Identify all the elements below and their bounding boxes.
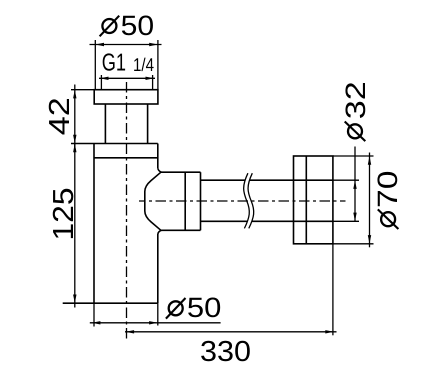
- svg-text:125: 125: [48, 188, 80, 241]
- nut bottom edge: [161, 229, 201, 231]
- dim G1 1/4: right extension line: [152, 75, 154, 90]
- nut face line: [184, 172, 186, 230]
- dim Ø50 top: right arrow: [149, 43, 158, 46]
- neck (G1 1/4 threaded inlet): [104, 104, 106, 144]
- body top edge with extension to dim line: [71, 143, 158, 145]
- dim G1 1/4: dimension line: [99, 77, 155, 79]
- dim Ø32: bottom arrow: [353, 213, 356, 222]
- dim 330: right arrow: [325, 330, 334, 333]
- wall flange outer rect: [294, 156, 333, 244]
- nut top edge: [161, 171, 201, 173]
- dim Ø50 bottom: left arrow: [92, 321, 101, 324]
- dim Ø50 top: left extension line: [94, 40, 96, 90]
- dim Ø32: label group (diameter symbol + 32) rotated: [340, 81, 371, 141]
- dim G1 1/4: right arrow: [146, 77, 155, 80]
- body bottom edge with extension to dim line: [63, 302, 158, 304]
- dim 125: dimension line: [74, 144, 76, 308]
- svg-text:50: 50: [121, 10, 155, 41]
- horizontal centerline of outlet pipe: [139, 200, 346, 202]
- svg-text:42: 42: [44, 97, 76, 135]
- body right edge lower: [157, 234, 159, 303]
- dim 42: bottom arrow: [73, 135, 76, 144]
- svg-text:1/4: 1/4: [133, 54, 154, 75]
- dim 330: left arrow: [125, 330, 134, 333]
- dim Ø70: bottom arrow: [368, 235, 371, 244]
- dim 125: top arrow: [73, 144, 76, 153]
- dim Ø50 bottom: diameter symbol: [166, 298, 186, 319]
- ball joint dome profile (chamfer-flat-chamfer): [145, 172, 161, 230]
- dim Ø50 top: right extension line: [157, 40, 159, 90]
- dim Ø32: dimension line: [354, 147, 356, 222]
- pipe break gap (white): [244, 173, 254, 228]
- dim Ø50 top: left arrow: [95, 43, 104, 46]
- body seam line: [94, 157, 158, 159]
- nut right edge: [200, 172, 202, 230]
- svg-text:G1: G1: [102, 50, 126, 77]
- pipe top line: [201, 179, 333, 181]
- dim Ø32: bottom extension line: [333, 220, 359, 222]
- dim Ø32: top extension line: [333, 179, 359, 181]
- dim 42: top arrow: [73, 90, 76, 99]
- svg-text:32: 32: [340, 81, 371, 119]
- dim G1 1/4: left extension line: [100, 75, 102, 90]
- dim Ø50 bottom: left extension line: [93, 303, 95, 326]
- dim G1 1/4: left arrow: [100, 77, 109, 80]
- nut top fillet: [158, 168, 161, 172]
- dim 125: bottom arrow: [73, 295, 76, 304]
- dim Ø32: top arrow: [353, 180, 356, 189]
- flange top extension to 42 dim: [71, 89, 94, 91]
- dim Ø50 bottom: dimension line extended under text: [90, 322, 221, 324]
- body left edge: [93, 144, 95, 304]
- dim Ø70: top arrow: [368, 156, 371, 165]
- vertical centerline of body: [126, 82, 128, 339]
- svg-text:50: 50: [187, 292, 222, 323]
- nut bottom fillet: [158, 230, 161, 234]
- dim Ø70: label group (diameter symbol + 70) rotated: [372, 171, 403, 230]
- wall flange inner vertical line: [305, 156, 307, 244]
- dim Ø70: bottom extension line: [333, 243, 374, 245]
- svg-text:70: 70: [372, 171, 403, 209]
- dim 42: dimension line: [74, 85, 76, 149]
- dim Ø70: top extension line: [333, 155, 374, 157]
- body right edge upper: [157, 144, 159, 169]
- svg-text:330: 330: [200, 336, 251, 368]
- dim Ø70: dimension line: [369, 153, 371, 248]
- dim Ø50 top: dimension line: [90, 44, 162, 46]
- flange (top tail-piece flange, Ø50): [94, 90, 158, 104]
- dim 330: right extension line (wall flange edge extended): [332, 244, 334, 335]
- dim Ø50 bottom: right extension line: [157, 303, 159, 325]
- dim 330: dimension line: [125, 331, 337, 333]
- pipe break squiggle right: [248, 173, 254, 228]
- pipe bottom line: [201, 220, 333, 222]
- dim Ø50 top: diameter symbol: [100, 16, 120, 37]
- dim Ø50 bottom: right arrow: [149, 321, 158, 324]
- pipe break squiggle left: [244, 173, 250, 228]
